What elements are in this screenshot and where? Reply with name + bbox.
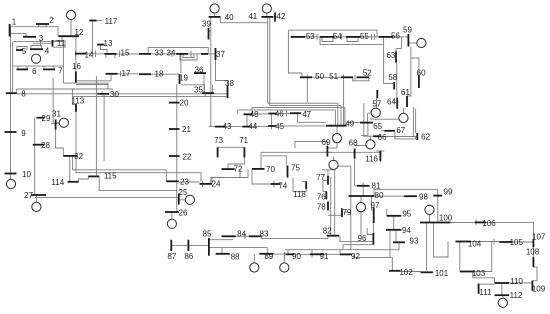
- bus 75 bar: [287, 166, 289, 178]
- svg-text:12: 12: [75, 28, 84, 37]
- bus 40 bar: [209, 16, 221, 18]
- bus 99 bar: [433, 195, 442, 197]
- svg-text:47: 47: [302, 110, 311, 119]
- wire w34-37tick: [190, 51, 192, 57]
- wire w77-82a: [330, 177, 332, 236]
- svg-text:36: 36: [195, 65, 204, 74]
- bus 34 bar: [176, 53, 188, 55]
- svg-text:63: 63: [386, 51, 395, 60]
- bus 14 bar: [75, 53, 86, 55]
- bus 42 bar: [274, 13, 276, 22]
- bus 90 bar: [286, 253, 295, 255]
- generator g27: [32, 202, 41, 211]
- wire wb7armA: [43, 66, 45, 69]
- wire w106tick: [475, 219, 477, 225]
- wire w104-105tick: [493, 239, 495, 245]
- svg-text:13: 13: [104, 39, 113, 48]
- wire w74wire: [252, 169, 271, 184]
- wire w94-92: [389, 230, 391, 258]
- wire w63armb: [395, 49, 397, 52]
- svg-text:112: 112: [510, 291, 523, 300]
- bus 52 bar: [357, 76, 370, 78]
- svg-text:80: 80: [375, 191, 384, 200]
- wire w36-35: [203, 73, 205, 93]
- wire w116tick: [377, 150, 385, 152]
- wire wg57v: [376, 98, 378, 108]
- bus 111 bar: [478, 284, 480, 294]
- wire w32-113: [75, 112, 77, 156]
- wire wV96: [95, 76, 97, 176]
- bus 15 bar: [105, 53, 117, 55]
- wire w101-102: [400, 271, 421, 273]
- wire wg69b: [333, 157, 335, 161]
- bus 66 bar: [373, 135, 381, 137]
- svg-text:2: 2: [49, 16, 54, 25]
- svg-text:50: 50: [315, 72, 324, 81]
- svg-text:71: 71: [239, 136, 248, 145]
- bus 76 bar: [325, 191, 327, 199]
- bus 110 bar: [495, 282, 510, 284]
- wire w103-105: [474, 242, 492, 272]
- svg-text:53: 53: [306, 32, 315, 41]
- svg-text:55: 55: [360, 32, 369, 41]
- wire w78-79: [328, 214, 342, 216]
- wire w53-56lowV: [319, 37, 321, 45]
- wire wg57lead: [368, 112, 371, 114]
- wire w3337cap: [148, 48, 208, 54]
- bus 49 bar: [326, 125, 347, 127]
- svg-text:60: 60: [417, 68, 426, 77]
- wire w90-91: [294, 253, 310, 255]
- svg-text:107: 107: [532, 232, 546, 241]
- wire w65-66a: [364, 103, 373, 136]
- bus 16 bar: [75, 72, 77, 83]
- wire w43-44: [225, 126, 242, 128]
- bus 59 bar: [407, 34, 409, 47]
- svg-text:109: 109: [532, 285, 546, 294]
- wire w12-117: [92, 21, 94, 54]
- wire w80-99: [374, 189, 438, 196]
- wire w90tick: [284, 252, 286, 259]
- svg-text:100: 100: [439, 214, 453, 223]
- svg-text:113: 113: [71, 96, 84, 105]
- svg-text:103: 103: [472, 269, 486, 278]
- bus 91 bar: [310, 253, 324, 255]
- svg-text:9: 9: [21, 129, 26, 138]
- svg-text:21: 21: [182, 125, 191, 134]
- bus 94 bar: [386, 229, 401, 231]
- wire w104-105: [471, 241, 499, 243]
- generator g80: [356, 203, 365, 212]
- svg-text:117: 117: [105, 17, 118, 26]
- wire w65-66b: [367, 123, 369, 136]
- wire w85-89: [209, 247, 267, 249]
- wire w99-100: [437, 196, 439, 223]
- wire wb6armB: [26, 66, 28, 69]
- svg-text:23: 23: [180, 177, 189, 186]
- bus 61 bar: [406, 96, 408, 107]
- wire w1617b: [110, 75, 112, 81]
- wire w13arm: [101, 45, 108, 54]
- svg-text:64: 64: [387, 97, 396, 106]
- wire wL2: [72, 95, 227, 97]
- wire w15-33tick: [119, 51, 121, 57]
- wire w27long: [35, 197, 179, 199]
- wire w39-40: [210, 17, 212, 127]
- svg-text:70: 70: [266, 165, 275, 174]
- wire w118arm: [302, 180, 306, 182]
- wire w103-110: [473, 272, 495, 284]
- bus 74 bar: [271, 183, 281, 185]
- bus 81 bar: [357, 185, 370, 187]
- svg-text:75: 75: [291, 164, 300, 173]
- bus 85 bar: [208, 238, 210, 256]
- bus 36 bar: [194, 72, 206, 74]
- svg-text:24: 24: [212, 180, 221, 189]
- wire w82-83a: [327, 236, 329, 239]
- bus 45 bar: [268, 125, 276, 127]
- bus 13 bar: [97, 44, 105, 46]
- wire wL1: [17, 88, 113, 90]
- wire w46-49b: [236, 110, 238, 114]
- bus 109 bar: [531, 281, 533, 291]
- wire wg112lead: [502, 295, 504, 298]
- svg-text:10: 10: [22, 170, 31, 179]
- wire w117r: [97, 20, 103, 22]
- svg-text:59: 59: [403, 26, 412, 35]
- wire w24armb: [211, 178, 213, 184]
- svg-text:79: 79: [342, 208, 351, 217]
- wire w2stubA: [38, 24, 40, 27]
- bus 57 bar: [376, 90, 378, 98]
- generator g57: [371, 108, 380, 117]
- wire w1-8: [10, 27, 12, 94]
- bus 9 bar: [5, 131, 17, 133]
- bus 37 bar: [215, 48, 217, 60]
- wire w31tick: [51, 122, 60, 124]
- wire wb6armA: [17, 66, 19, 69]
- bus 32 bar: [63, 155, 77, 157]
- svg-text:41: 41: [248, 12, 257, 21]
- wire w68-81: [355, 159, 357, 186]
- bus 86 bar: [187, 240, 189, 251]
- wire w34ua: [180, 54, 197, 60]
- wire wg80lead: [360, 196, 362, 203]
- wire wg31lead: [56, 122, 60, 124]
- wire w70feed: [260, 152, 262, 169]
- bus 73 bar: [217, 147, 219, 157]
- generator g31: [59, 118, 68, 127]
- wire w23-24: [179, 181, 200, 183]
- wire w86-87: [171, 244, 209, 246]
- svg-text:1: 1: [12, 17, 17, 26]
- wire w1617a: [76, 80, 111, 82]
- wire w80-97: [371, 196, 373, 211]
- bus 1 bar: [9, 24, 11, 37]
- wire w91arm: [311, 250, 313, 258]
- wire w49-69box: [295, 142, 327, 149]
- generator g6: [31, 54, 40, 63]
- bus 68 bar: [354, 149, 356, 159]
- wire wg59: [408, 42, 416, 44]
- wire w88arm: [221, 248, 223, 254]
- wire wg57leadv: [367, 113, 369, 124]
- svg-text:89: 89: [264, 252, 273, 261]
- wire w110-112: [501, 283, 503, 295]
- wire wg40: [214, 13, 216, 17]
- svg-text:58: 58: [388, 73, 397, 82]
- wire w54-55tick: [341, 34, 343, 40]
- generator g68: [366, 140, 375, 149]
- svg-text:62: 62: [421, 132, 430, 141]
- svg-text:4: 4: [45, 46, 50, 55]
- wire w40-41U: [221, 17, 268, 23]
- bus 103 bar: [460, 271, 474, 273]
- svg-text:90: 90: [292, 252, 301, 261]
- svg-text:54: 54: [333, 32, 342, 41]
- bus 31 bar: [55, 119, 57, 129]
- wire wboxleft: [288, 30, 302, 77]
- wire w96-97: [373, 223, 375, 233]
- wire wV104: [103, 95, 105, 161]
- bus 65 bar: [360, 122, 373, 124]
- wire w70-75: [262, 156, 286, 166]
- wire w35cross: [205, 93, 207, 96]
- wire w55-56: [361, 36, 379, 38]
- bus 3 bar: [23, 36, 36, 38]
- svg-text:57: 57: [372, 100, 381, 109]
- wire w2stubB: [45, 24, 47, 27]
- wire w11box: [53, 41, 66, 47]
- wire w71-72: [228, 157, 244, 169]
- wire w67-62: [395, 131, 416, 139]
- svg-text:78: 78: [317, 202, 326, 211]
- wire w42-49a: [268, 23, 338, 126]
- generator g112: [498, 298, 507, 307]
- bus 34b bar: [201, 53, 208, 55]
- wire w35armb: [211, 85, 213, 93]
- svg-text:111: 111: [479, 288, 492, 297]
- svg-text:11: 11: [57, 39, 66, 48]
- svg-text:61: 61: [401, 88, 410, 97]
- bus 113 bar: [75, 104, 77, 112]
- svg-text:88: 88: [231, 252, 240, 261]
- wire w33-34tick: [171, 51, 173, 57]
- wire w63arm: [396, 37, 401, 49]
- wire w69-49h: [327, 147, 337, 149]
- wire w89arm: [266, 248, 268, 254]
- wire w48-49: [252, 108, 345, 126]
- generator g61: [399, 113, 408, 122]
- bus 26 bar: [165, 211, 179, 213]
- bus 89 bar: [259, 253, 273, 255]
- wire w67arm: [381, 130, 384, 132]
- wire w24-72: [239, 169, 241, 177]
- wire w37-38: [216, 60, 228, 85]
- svg-text:15: 15: [121, 49, 130, 58]
- wire w27trunk: [34, 118, 36, 195]
- wire w55-56tick: [371, 34, 373, 40]
- wire wcorr: [350, 166, 352, 250]
- wire w114-115: [79, 176, 89, 181]
- wire wL3: [17, 93, 228, 95]
- bus 100 bar: [420, 222, 451, 224]
- wire w68gen: [355, 145, 366, 147]
- wire w93-94: [395, 230, 397, 243]
- svg-text:19: 19: [179, 74, 188, 83]
- wire w92-93: [398, 242, 400, 249]
- svg-text:14: 14: [85, 50, 94, 59]
- wire w14-15tick: [95, 51, 97, 58]
- wire wg69lead: [333, 169, 335, 171]
- wire w106-107: [485, 222, 534, 239]
- wire w77top: [322, 169, 334, 171]
- wire w83-84: [236, 235, 249, 237]
- bus 69 bar: [326, 146, 328, 157]
- bus 105 bar: [499, 241, 512, 243]
- bus 33 bar: [139, 53, 151, 55]
- svg-text:8: 8: [21, 90, 26, 99]
- wire w1-3: [10, 33, 26, 36]
- bus 77 bar: [327, 176, 329, 185]
- wire wtrunkL: [10, 93, 12, 179]
- svg-text:95: 95: [402, 210, 411, 219]
- wire w24arm: [211, 169, 248, 184]
- generator g10: [6, 179, 15, 188]
- wire w3-11: [33, 42, 53, 44]
- wire w54arm: [322, 37, 333, 42]
- wire w115-23: [99, 176, 177, 190]
- wire w85-84: [209, 239, 233, 241]
- wire w12-11: [56, 36, 62, 40]
- wire w53-54tick: [316, 34, 318, 40]
- wire w77-76b: [323, 179, 328, 181]
- svg-text:49: 49: [345, 120, 354, 129]
- bus 10 bar: [5, 173, 17, 175]
- bus 107 bar: [532, 239, 534, 247]
- wire w83-84tick: [244, 233, 246, 239]
- bus 97 bar: [373, 208, 375, 224]
- svg-text:45: 45: [275, 122, 284, 131]
- wire w53-54: [305, 36, 320, 38]
- generator g69: [329, 160, 338, 169]
- bus 21 bar: [169, 128, 180, 130]
- bus 106 bar: [475, 221, 487, 223]
- svg-text:43: 43: [223, 122, 232, 131]
- bus 38 bar: [227, 85, 229, 98]
- wire w34-36: [180, 54, 182, 73]
- bus 24 bar: [200, 183, 213, 185]
- bus 50 bar: [300, 76, 312, 78]
- bus 88 bar: [216, 253, 230, 255]
- wire w44-48: [246, 114, 248, 126]
- bus 6 bar: [17, 68, 29, 70]
- svg-text:69: 69: [321, 138, 330, 147]
- svg-text:93: 93: [410, 237, 419, 246]
- wire w18-19: [151, 73, 179, 75]
- wire w75-118: [293, 178, 306, 192]
- svg-text:102: 102: [399, 268, 413, 277]
- svg-text:39: 39: [202, 19, 211, 28]
- wire wbox37: [13, 42, 64, 67]
- svg-text:18: 18: [155, 69, 164, 78]
- bus 12 bar: [59, 35, 80, 37]
- wire w32-23b: [76, 156, 201, 182]
- wire w100-101: [425, 223, 427, 271]
- svg-text:34: 34: [167, 48, 176, 57]
- wire w47-49: [298, 113, 326, 122]
- svg-text:65: 65: [373, 122, 382, 131]
- svg-text:114: 114: [51, 178, 64, 187]
- wire w55-56tickb: [374, 34, 376, 40]
- wire w41-42: [273, 16, 278, 18]
- bus 48 bar: [244, 113, 253, 115]
- generator g41: [262, 4, 271, 13]
- bus 84 bar: [222, 235, 236, 237]
- wire w94-95: [393, 216, 395, 230]
- wire w113arm: [72, 104, 76, 106]
- bus 27 bar: [31, 194, 46, 196]
- bus 30 bar: [98, 93, 110, 95]
- svg-text:16: 16: [72, 62, 81, 71]
- wire w46-49: [237, 110, 335, 126]
- wire w91-92: [324, 253, 340, 255]
- bus 79 bar: [341, 208, 343, 217]
- svg-text:46: 46: [275, 109, 284, 118]
- bus 11 bar: [52, 40, 54, 47]
- wire w100-106: [451, 222, 474, 224]
- bus 39 bar: [208, 28, 210, 40]
- wire w51-52U: [353, 77, 369, 81]
- bus 104 bar: [455, 241, 471, 243]
- generator g90: [280, 263, 289, 272]
- svg-text:77: 77: [316, 173, 325, 182]
- svg-text:40: 40: [225, 13, 234, 22]
- bus 56 bar: [379, 36, 394, 38]
- wire w15arm1: [105, 54, 107, 58]
- bus 4 bar: [30, 48, 43, 50]
- generator g89: [250, 263, 259, 272]
- bus 117 bar: [89, 20, 96, 22]
- bus 116 bar: [379, 151, 381, 162]
- wire w79-corr: [344, 211, 351, 213]
- generator g12: [66, 10, 75, 19]
- wire w50tickv: [306, 74, 308, 103]
- wire w105-107: [513, 241, 534, 243]
- wire w30tick: [101, 91, 103, 97]
- bus 62 bar: [416, 133, 418, 140]
- svg-text:98: 98: [419, 193, 428, 202]
- bus 18 bar: [139, 73, 151, 75]
- wire wtrunkM: [176, 84, 178, 212]
- bus 70 bar: [252, 168, 265, 170]
- svg-text:22: 22: [183, 152, 192, 161]
- wire w77-82b: [334, 170, 336, 236]
- wire wg12: [70, 20, 72, 37]
- bus 101 bar: [421, 271, 434, 273]
- wire w92arm: [339, 250, 341, 255]
- svg-text:97: 97: [371, 201, 380, 210]
- svg-text:20: 20: [180, 99, 189, 108]
- wire w89-90: [274, 253, 286, 255]
- wire wg49b: [336, 143, 338, 148]
- svg-text:116: 116: [365, 154, 378, 163]
- wire w90arm: [287, 250, 289, 255]
- svg-text:73: 73: [214, 136, 223, 145]
- wire w103-104: [459, 242, 461, 272]
- svg-text:17: 17: [122, 69, 131, 78]
- wire w44-45: [251, 126, 268, 128]
